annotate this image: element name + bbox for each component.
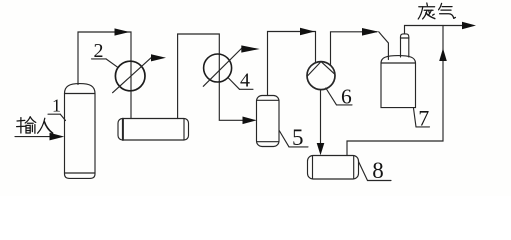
- label 1: [48, 96, 66, 121]
- label 4: [228, 69, 253, 91]
- pipe: vessel3 to HX4 and down to vessel5 feed: [178, 34, 243, 120]
- heat exchanger 4 circle: [204, 54, 232, 82]
- vessel 8 horizontal drum: [308, 156, 359, 180]
- HX2 diagonal outlet arrow: [113, 54, 166, 92]
- svg-text:5: 5: [292, 125, 304, 150]
- label 6: [326, 85, 352, 109]
- wire: pipe through HX2 down to vessel3: [130, 62, 132, 119]
- 输入 input text: [17, 117, 53, 133]
- pipe: vessel8 outlet up to waste gas line, with up arrow: [347, 26, 447, 156]
- pipe: column1 top to HX2, with flow arrow: [78, 28, 131, 84]
- svg-text:8: 8: [372, 158, 384, 183]
- 废气 waste-gas text: [418, 3, 455, 19]
- svg-text:4: 4: [240, 69, 250, 91]
- label 5: [279, 125, 308, 150]
- heat exchanger 2 circle: [115, 61, 145, 91]
- label 8: [359, 158, 392, 183]
- input feed arrow: [15, 133, 64, 141]
- pipe: fan6 down to vessel8, with down arrow: [317, 90, 325, 156]
- svg-text:1: 1: [52, 96, 61, 116]
- vessel 3 horizontal drum: [118, 119, 189, 141]
- vessel 7 bottle: [381, 34, 416, 108]
- label 7: [414, 105, 430, 130]
- pipe: vessel7 neck to waste gas line: [405, 26, 463, 34]
- arrow into vessel5: [243, 117, 257, 125]
- vessel 5: [257, 96, 280, 147]
- HX4 diagonal outlet arrow: [203, 45, 259, 86]
- label 2: [92, 40, 118, 67]
- pipe: fan6 outlet to vessel7, with flow arrow: [331, 28, 389, 65]
- column 1 vessel: [65, 84, 96, 179]
- waste gas outlet arrow: [462, 22, 476, 30]
- pipe: vessel5 top to fan6, with flow arrow: [268, 28, 316, 96]
- fan 6 circle: [307, 62, 335, 90]
